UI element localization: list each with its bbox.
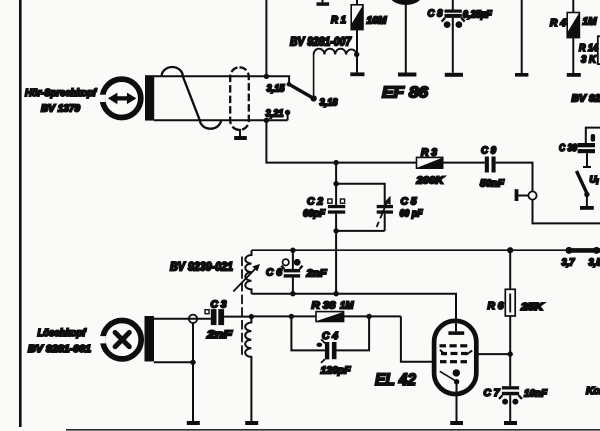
wire circle to C3 bbox=[189, 318, 211, 320]
wire C3 to junction bbox=[224, 316, 251, 318]
wire bottom of C2/C5 bbox=[336, 230, 385, 232]
svg-text:3,7: 3,7 bbox=[562, 258, 576, 269]
svg-text:C 8: C 8 bbox=[428, 9, 443, 20]
ground (top edge) bbox=[317, 0, 330, 6]
svg-text:0,25µF: 0,25µF bbox=[463, 10, 493, 21]
connector bar bbox=[515, 189, 519, 201]
wire across to C5 branch bbox=[336, 184, 385, 205]
svg-text:BV 926: BV 926 bbox=[572, 94, 600, 105]
cathode lead bbox=[440, 371, 457, 381]
contact dot 3,18 bbox=[310, 95, 316, 101]
wire head bottom lead bbox=[154, 361, 193, 363]
node: junction dot top lead bbox=[264, 74, 269, 79]
shield ground bar bbox=[234, 136, 247, 140]
node: bottom junction bbox=[333, 228, 338, 233]
svg-text:R 14: R 14 bbox=[579, 43, 598, 54]
contact dot 3,15 bbox=[287, 82, 292, 87]
contact 3,21 stub and dot bbox=[287, 112, 289, 120]
capacitor C39 bbox=[578, 143, 595, 153]
svg-text:10M: 10M bbox=[367, 16, 387, 27]
node: R6 tap on rail bbox=[507, 247, 513, 253]
capacitor C2 bbox=[328, 184, 345, 231]
grid g3 dashes bbox=[440, 344, 468, 347]
anode bar bbox=[448, 331, 464, 335]
grid g2 dashes with ticks bbox=[441, 352, 468, 355]
connector link line bbox=[518, 195, 528, 197]
wire down from mid wire bbox=[335, 163, 337, 184]
svg-text:25K: 25K bbox=[520, 301, 545, 313]
wire up from junction to top edge bbox=[265, 0, 267, 76]
svg-text:BV 9239-021: BV 9239-021 bbox=[170, 260, 233, 274]
switch blob bbox=[591, 134, 595, 142]
cathode dot big bbox=[453, 369, 460, 376]
tube EL42 envelope bbox=[434, 321, 476, 394]
C5 trimmer arrow bbox=[377, 196, 391, 227]
svg-text:R 3: R 3 bbox=[421, 148, 437, 159]
wire: head bottom lead bbox=[154, 119, 288, 121]
cathode dot small bbox=[454, 379, 459, 384]
svg-text:R 4: R 4 bbox=[550, 18, 566, 29]
capacitor C7 bbox=[499, 386, 522, 421]
ground head bbox=[187, 421, 200, 425]
wire corner to edge bbox=[586, 128, 600, 143]
resistor R14 (clipped at edge) bbox=[598, 36, 600, 64]
transformer winding (slanted S) bbox=[162, 67, 222, 129]
wire R3 to C9 bbox=[443, 162, 485, 164]
switch arm U_I bbox=[577, 171, 587, 193]
tank tuning arrow bbox=[233, 264, 260, 292]
coil BV 9281-007 bbox=[314, 49, 357, 55]
fixed contact foot bbox=[583, 166, 591, 168]
svg-text:C 3: C 3 bbox=[211, 300, 227, 311]
bottom border line bbox=[66, 429, 600, 431]
node: screen junction bbox=[508, 351, 513, 356]
wire rail (B+) bbox=[252, 249, 567, 251]
grid g1 dashes bbox=[440, 360, 467, 363]
node: left junction bbox=[289, 314, 294, 319]
wire C9 right, down to output bbox=[496, 163, 533, 192]
svg-text:3 K: 3 K bbox=[581, 55, 597, 66]
resistor R1 bbox=[351, 0, 363, 72]
left border line bbox=[19, 0, 22, 427]
wire R38 to right junction bbox=[344, 315, 401, 317]
svg-text:R 38: R 38 bbox=[312, 300, 336, 312]
node: coil to R1 junction bbox=[354, 52, 359, 57]
C4 branch right bbox=[337, 316, 370, 350]
connector circle bbox=[189, 315, 197, 323]
capacitor C4 bbox=[325, 342, 337, 359]
ground EL42 bbox=[450, 421, 463, 425]
ground erase coil bbox=[245, 421, 258, 425]
wire rail2 (anode line) bbox=[252, 294, 457, 332]
svg-text:C 4: C 4 bbox=[322, 331, 338, 342]
capacitor C8 bbox=[442, 0, 465, 73]
capacitor C9 bbox=[485, 157, 496, 173]
head ring (Loeschkopf) bbox=[98, 321, 142, 359]
node: top junction bbox=[333, 181, 338, 186]
erase coil bbox=[245, 317, 251, 421]
cathode to ground bbox=[456, 382, 458, 421]
C4 trimmer hook bbox=[316, 339, 325, 363]
shield (dashed oval) bbox=[230, 67, 249, 130]
svg-text:60pF: 60pF bbox=[303, 209, 326, 220]
connector: open circle bbox=[528, 191, 536, 199]
svg-text:BV 1379: BV 1379 bbox=[41, 104, 80, 115]
ground C7 bbox=[504, 421, 517, 425]
svg-text:C 39: C 39 bbox=[559, 143, 577, 154]
node: bottom lead dot bbox=[190, 360, 195, 365]
contact dot 3,5 bbox=[593, 247, 600, 254]
node: junction dot bottom lead bbox=[264, 118, 269, 123]
head X mark bbox=[115, 333, 129, 347]
wire EF86 cathode lead bbox=[405, 3, 407, 73]
svg-text:C 2: C 2 bbox=[307, 197, 323, 208]
node: C6 top bbox=[290, 248, 295, 253]
node: right junction bbox=[366, 314, 371, 319]
svg-text:C 5: C 5 bbox=[401, 197, 417, 208]
svg-text:Hör-Sprechkopf: Hör-Sprechkopf bbox=[25, 88, 97, 99]
wire circle down bbox=[192, 323, 194, 421]
svg-text:Löschkopf: Löschkopf bbox=[38, 328, 87, 339]
ground C8 bbox=[445, 73, 463, 77]
capacitor C3 bbox=[211, 309, 224, 325]
wire: head top lead bbox=[154, 76, 289, 82]
resistor R3 bbox=[417, 157, 443, 168]
ground stem bbox=[586, 196, 588, 206]
svg-text:3,15: 3,15 bbox=[267, 84, 285, 95]
ground R4 bbox=[567, 73, 581, 77]
ground bar U_I bbox=[580, 206, 594, 210]
wire R6 down bbox=[509, 316, 511, 386]
resistor R4 bbox=[567, 0, 579, 73]
dashed core line bbox=[241, 257, 243, 357]
tank coil (left, bumps) bbox=[245, 250, 251, 294]
svg-text:60 pF: 60 pF bbox=[400, 209, 424, 220]
node: C3/coil junction bbox=[249, 314, 254, 319]
svg-text:1M: 1M bbox=[583, 17, 597, 28]
svg-text:EL 42: EL 42 bbox=[375, 371, 416, 389]
svg-text:BV 9281-001: BV 9281-001 bbox=[28, 344, 91, 355]
svg-text:3,21: 3,21 bbox=[266, 109, 284, 120]
head core bar bbox=[145, 75, 154, 120]
node: C2/C5 drop on rail2 bbox=[333, 291, 338, 296]
contact dot bbox=[584, 192, 589, 197]
wire input line bbox=[251, 315, 316, 317]
capacitor C2 trimmer squares bbox=[328, 199, 345, 203]
svg-text:50nF: 50nF bbox=[480, 178, 505, 190]
wire below connector to lower rail bbox=[533, 200, 600, 224]
svg-text:R 6: R 6 bbox=[488, 301, 504, 312]
resistor R6 bbox=[505, 289, 515, 316]
svg-text:Kon: Kon bbox=[586, 386, 600, 397]
svg-text:3,5: 3,5 bbox=[589, 258, 600, 269]
wire head top lead bbox=[154, 318, 189, 320]
wire (screen lead) and ground bbox=[515, 0, 528, 77]
svg-text:3,18: 3,18 bbox=[320, 98, 338, 109]
svg-text:EF 86: EF 86 bbox=[382, 85, 429, 102]
capacitor C6 bbox=[281, 250, 302, 294]
svg-text:1M: 1M bbox=[340, 300, 354, 312]
shield ground stem bbox=[239, 129, 241, 137]
svg-text:R 1: R 1 bbox=[331, 15, 346, 26]
svg-text:200K: 200K bbox=[415, 175, 445, 187]
wire down crossing rail to anode rail bbox=[335, 231, 337, 294]
tube EF86 envelope bottom bbox=[389, 0, 423, 5]
C3 trimmer square bbox=[205, 310, 209, 314]
ground EF86 bbox=[398, 73, 416, 77]
svg-text:C 7: C 7 bbox=[484, 388, 501, 399]
contact dot 3,7 bbox=[566, 247, 573, 254]
svg-text:10nF: 10nF bbox=[524, 388, 548, 400]
wire below C39 bbox=[586, 153, 588, 167]
head ring (Hoer-Sprechkopf) bbox=[97, 79, 141, 117]
svg-text:2nF: 2nF bbox=[206, 329, 233, 341]
wire to R6 bbox=[509, 250, 511, 289]
wire from 3,21 node down and right bbox=[266, 120, 416, 162]
C4 branch left bbox=[291, 316, 325, 350]
head arrow bbox=[108, 93, 136, 105]
ground R1 bbox=[350, 72, 364, 76]
wire screen to tube bbox=[478, 353, 510, 355]
svg-text:120pF: 120pF bbox=[321, 365, 352, 377]
svg-text:C 6: C 6 bbox=[266, 268, 282, 279]
svg-text:BV 9281-007: BV 9281-007 bbox=[290, 35, 352, 49]
resistor R38 bbox=[316, 312, 344, 322]
svg-text:2nF: 2nF bbox=[305, 269, 327, 280]
wire from 3,18 up to coil bbox=[313, 55, 315, 99]
node: junction at C2 branch bbox=[333, 160, 338, 165]
head core bar bbox=[145, 316, 155, 362]
switch arm bbox=[289, 84, 314, 98]
capacitor C5 bbox=[377, 205, 393, 231]
wire to grid bbox=[401, 316, 433, 361]
svg-text:C 9: C 9 bbox=[481, 146, 496, 157]
thick bus segment bbox=[566, 248, 600, 253]
node: C6 bottom bbox=[290, 291, 295, 296]
